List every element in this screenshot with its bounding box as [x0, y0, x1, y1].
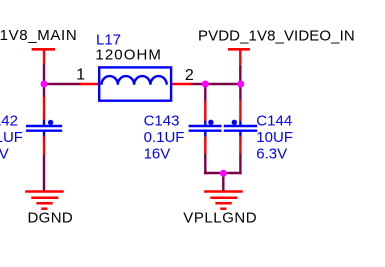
- svg-text:16V: 16V: [144, 146, 171, 163]
- svg-text:2: 2: [185, 67, 194, 84]
- svg-text:PVDD_1V8_VIDEO_IN: PVDD_1V8_VIDEO_IN: [198, 27, 355, 44]
- svg-text:0.1UF: 0.1UF: [0, 129, 23, 146]
- svg-text:C142: C142: [0, 113, 18, 130]
- svg-text:DGND: DGND: [28, 210, 74, 227]
- svg-text:1V8_MAIN: 1V8_MAIN: [0, 27, 77, 44]
- svg-text:1: 1: [76, 67, 85, 84]
- svg-text:C144: C144: [256, 113, 292, 130]
- svg-text:C143: C143: [144, 113, 180, 130]
- svg-text:10UF: 10UF: [256, 129, 293, 146]
- svg-text:L17: L17: [96, 31, 121, 48]
- svg-text:6.3V: 6.3V: [256, 146, 287, 163]
- svg-text:16V: 16V: [0, 146, 9, 163]
- svg-text:120OHM: 120OHM: [95, 47, 162, 64]
- svg-text:0.1UF: 0.1UF: [144, 129, 185, 146]
- svg-text:VPLLGND: VPLLGND: [183, 210, 257, 227]
